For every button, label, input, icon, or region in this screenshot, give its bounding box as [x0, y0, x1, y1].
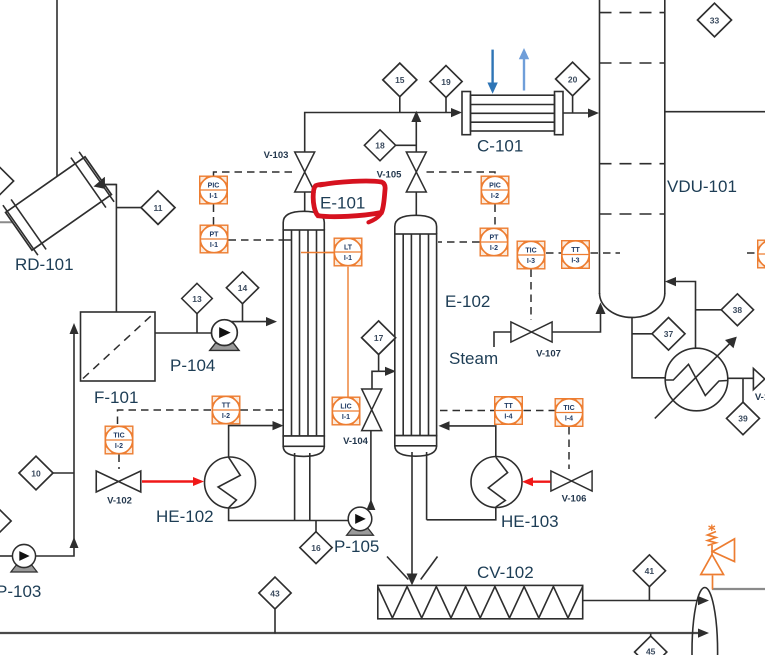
instrument TT I-2: [212, 396, 240, 424]
wire P-104 discharge to E-101: [222, 321, 270, 323]
wire heater bypass diagonal with arrow: [655, 343, 731, 419]
svg-text:18: 18: [375, 141, 385, 151]
column E-101: [283, 211, 324, 456]
wire node 43 stem: [274, 610, 276, 634]
wire feed line into RD-101 top: [56, 0, 58, 181]
wire tank top line: [712, 588, 765, 590]
svg-text:TIC: TIC: [525, 248, 536, 255]
svg-text:I-2: I-2: [490, 245, 498, 252]
product tank end cap: [692, 588, 718, 655]
wire RD-101 feed arrow redrawn on top: [99, 184, 116, 186]
valve V-106: [551, 471, 592, 491]
svg-text:19: 19: [441, 77, 451, 87]
svg-text:V-104: V-104: [343, 436, 369, 447]
wire dashed PIC I-1 to V-103: [214, 172, 295, 176]
svg-text:I-3: I-3: [571, 258, 579, 265]
svg-text:F-101: F-101: [94, 388, 138, 407]
svg-text:I-2: I-2: [115, 443, 123, 450]
svg-text:TT: TT: [504, 403, 513, 410]
svg-text:I-1: I-1: [210, 242, 218, 249]
wire dashed V-105 to PIC I-2: [427, 172, 496, 176]
svg-text:45: 45: [646, 647, 656, 655]
node 10: [19, 456, 53, 490]
wire dashed PIC I-2 to PT I-2: [494, 205, 496, 228]
node 19: [430, 66, 462, 98]
svg-text:41: 41: [645, 566, 655, 576]
bottoms heater circle: [665, 348, 728, 411]
svg-text:TIC: TIC: [563, 405, 574, 412]
wire VDU-101 right offtake: [665, 111, 765, 113]
relief valve PSV orange: [701, 525, 735, 590]
svg-text:14: 14: [238, 283, 248, 293]
node 13: [182, 283, 213, 313]
wire dashed TIC I-3 to TT I-3: [546, 252, 561, 254]
instrument TIC I-2: [105, 426, 133, 454]
instrument TT I-4: [495, 397, 523, 425]
screw conveyor CV-102: [378, 585, 583, 618]
wire E-101 overhead line: [305, 113, 455, 153]
wire node 19 stem: [445, 97, 447, 113]
wire V-103 to E-101 dome: [304, 192, 306, 213]
red flow arrow into HE-103: [522, 477, 551, 486]
wire node 15 stem: [399, 97, 401, 113]
wire P-105 riser through V-104: [370, 431, 372, 504]
instrument LIC I-1: [332, 397, 360, 425]
wire heater outlet to flare: [728, 377, 754, 379]
vacuum column VDU-101: [600, 0, 665, 317]
svg-text:C-101: C-101: [477, 137, 523, 156]
svg-text:I-2: I-2: [491, 193, 499, 200]
svg-text:Steam: Steam: [449, 349, 498, 368]
svg-text:PT: PT: [210, 232, 220, 239]
svg-text:I-4: I-4: [504, 414, 512, 421]
svg-text:V-106: V-106: [562, 494, 587, 505]
valve V-105: [406, 152, 426, 192]
svg-text:I-1: I-1: [344, 255, 352, 262]
svg-text:17: 17: [374, 333, 384, 343]
valve V-104: [362, 389, 382, 431]
svg-text:TT: TT: [222, 403, 231, 410]
node 16: [300, 532, 332, 564]
node 41: [633, 555, 665, 587]
svg-text:I-1: I-1: [342, 414, 350, 421]
svg-text:I-2: I-2: [222, 413, 230, 420]
wire dashed TIC I-2 to V-102: [118, 455, 120, 470]
svg-text:I-3: I-3: [527, 258, 535, 265]
node partial left top: [0, 165, 14, 197]
instrument PIC I-1: [200, 176, 228, 204]
heat exchanger HE-103: [471, 457, 522, 508]
wire dashed PT I-2 to E-102: [438, 241, 480, 243]
instrument PT I-2: [480, 228, 508, 256]
svg-text:15: 15: [395, 75, 405, 85]
svg-text:HE-102: HE-102: [156, 507, 214, 526]
instrument TIC I-3: [517, 241, 545, 269]
wire HE-102 return line: [229, 508, 349, 521]
svg-text:33: 33: [710, 15, 720, 25]
svg-text:16: 16: [311, 543, 321, 553]
wire HE-103 return line: [427, 508, 496, 520]
valve V-103: [295, 152, 315, 192]
wire node 39 stem: [742, 378, 744, 402]
wire dashed TT I-4 line: [440, 410, 494, 412]
wire node 38 link: [696, 309, 722, 311]
filter F-101: [81, 312, 156, 381]
pump P-104: [210, 320, 239, 351]
wire arrow into RD-101: [92, 177, 106, 191]
instrument TT I-3: [562, 241, 590, 269]
wire node 16 stem: [315, 521, 317, 532]
wire dashed stub right edge: [747, 252, 757, 254]
condenser C-101: [462, 92, 563, 135]
wire dashed TT I-3 to VDU: [591, 252, 621, 254]
node 18: [364, 130, 395, 161]
svg-text:I-1: I-1: [209, 193, 217, 200]
feed funnel above CV-102: [387, 557, 408, 580]
wire V-104 to junction: [372, 371, 379, 389]
wire orange LT I-1 to LIC I-1: [347, 267, 349, 397]
pump P-103: [11, 544, 37, 572]
node 17: [362, 321, 396, 355]
wire dashed fragment inside E-101 top: [284, 239, 292, 241]
svg-text:TIC: TIC: [113, 433, 124, 440]
svg-text:I-4: I-4: [565, 416, 573, 423]
instrument partial right edge: [758, 240, 765, 268]
wire node 17 stem: [378, 355, 380, 372]
wire E-102 neck right: [426, 452, 428, 520]
cooling water arrow down: [487, 50, 497, 94]
wire node 37 link: [632, 333, 653, 335]
wire node 10 stem: [53, 472, 74, 474]
node 37: [652, 318, 685, 351]
wire steam supply: [494, 332, 511, 347]
node 43: [259, 577, 291, 609]
wire dashed TIC I-4 to V-106: [568, 427, 570, 469]
wire node 41 stem: [648, 587, 650, 601]
wire V-107 to VDU-101 bottom: [552, 309, 601, 332]
node 14: [226, 272, 258, 304]
svg-text:V-102: V-102: [107, 496, 132, 507]
instrument PIC I-2: [481, 176, 509, 204]
svg-text:V-107: V-107: [536, 349, 561, 360]
node 45: [635, 636, 667, 655]
wire C-101 outlet to VDU-101: [563, 112, 592, 114]
svg-text:38: 38: [733, 305, 743, 315]
node 15: [383, 63, 417, 97]
svg-text:V-1: V-1: [755, 392, 765, 403]
red flow arrow into HE-102: [142, 477, 204, 486]
svg-text:P-105: P-105: [334, 537, 379, 556]
wire junction into E-102: [379, 370, 389, 372]
wire bottom long line to tank: [0, 632, 702, 634]
svg-text:E-102: E-102: [445, 292, 490, 311]
svg-text:39: 39: [738, 414, 748, 424]
svg-text:10: 10: [31, 468, 41, 478]
wire node 18 link: [394, 144, 416, 146]
wire P-103 suction: [0, 555, 13, 557]
wire node 20 stem: [572, 96, 574, 114]
wire dashed PT I-1 to E-101: [229, 239, 291, 241]
wire F-101 outlet to P-104: [155, 332, 212, 334]
svg-text:20: 20: [568, 74, 578, 84]
svg-text:V-103: V-103: [264, 150, 289, 161]
rotary drum RD-101: [1, 151, 115, 257]
wire E-101 neck right: [309, 453, 311, 521]
wire orange LT line visible inside E-101: [301, 252, 334, 254]
svg-text:LT: LT: [344, 245, 353, 252]
red hand-drawn highlight around E-101 label: [313, 181, 385, 222]
svg-text:VDU-101: VDU-101: [667, 177, 737, 196]
wire branch to node 11: [116, 207, 142, 209]
instrument PT I-1: [200, 225, 228, 253]
wire V-105 to E-102 dome: [415, 192, 417, 217]
wire VDU bottoms to heater: [632, 317, 665, 378]
node 11: [141, 191, 175, 225]
svg-text:V-105: V-105: [377, 170, 403, 181]
wire E-102 overhead riser: [415, 118, 417, 152]
svg-text:RD-101: RD-101: [15, 255, 74, 274]
svg-text:13: 13: [192, 294, 202, 304]
wire VDU recycle return: [670, 282, 696, 349]
wire CV-102 discharge to tank: [583, 600, 702, 602]
svg-text:TT: TT: [571, 247, 580, 254]
instrument LT I-1: [334, 238, 362, 266]
node 20: [556, 62, 590, 96]
wire HE-102 pass to E-101 bottom: [229, 426, 276, 457]
wire grey stub left of RD-101: [0, 221, 19, 223]
node 38: [721, 294, 753, 326]
node 39: [727, 402, 760, 435]
svg-text:PIC: PIC: [208, 183, 220, 190]
wire dashed TIC I-3 to V-107: [530, 270, 532, 321]
instrument TIC I-4: [555, 399, 583, 427]
svg-text:PT: PT: [490, 235, 500, 242]
node 33: [698, 3, 732, 37]
wire node 14 stem: [242, 304, 244, 322]
pump P-105: [347, 507, 374, 535]
svg-text:43: 43: [270, 588, 280, 598]
svg-text:37: 37: [664, 329, 674, 339]
svg-text:PIC: PIC: [489, 183, 501, 190]
wire E-101 neck left: [294, 453, 296, 521]
svg-text:LIC: LIC: [340, 404, 351, 411]
wire orange LT I-1 into E-101: [301, 252, 334, 254]
svg-text:CV-102: CV-102: [477, 563, 534, 582]
node partial left bottom: [0, 505, 11, 537]
wire node 13 stem: [196, 313, 198, 333]
svg-text:P-103: P-103: [0, 582, 41, 601]
svg-text:E-101: E-101: [320, 194, 365, 213]
column E-102: [395, 215, 437, 456]
svg-text:P-104: P-104: [170, 356, 215, 375]
heat exchanger HE-102: [205, 457, 256, 508]
svg-text:HE-103: HE-103: [501, 512, 559, 531]
wire dashed PIC I-1 to PT I-1: [213, 205, 215, 225]
valve V-102: [96, 471, 141, 492]
wire E-102 neck left to CV-102: [411, 452, 413, 579]
wire node 45 stem: [650, 634, 652, 637]
svg-text:11: 11: [154, 203, 163, 213]
valve V-107: [511, 322, 552, 342]
wire dashed TT I-2 loop: [118, 410, 212, 424]
cooling water arrow up: [519, 48, 529, 91]
wire RD-101 outlet to F-101: [99, 185, 116, 313]
wire HE-103 pass to E-102 bottom: [445, 426, 496, 457]
wire P-103 riser to F-101: [36, 330, 75, 556]
flare connection triangle: [753, 369, 764, 390]
